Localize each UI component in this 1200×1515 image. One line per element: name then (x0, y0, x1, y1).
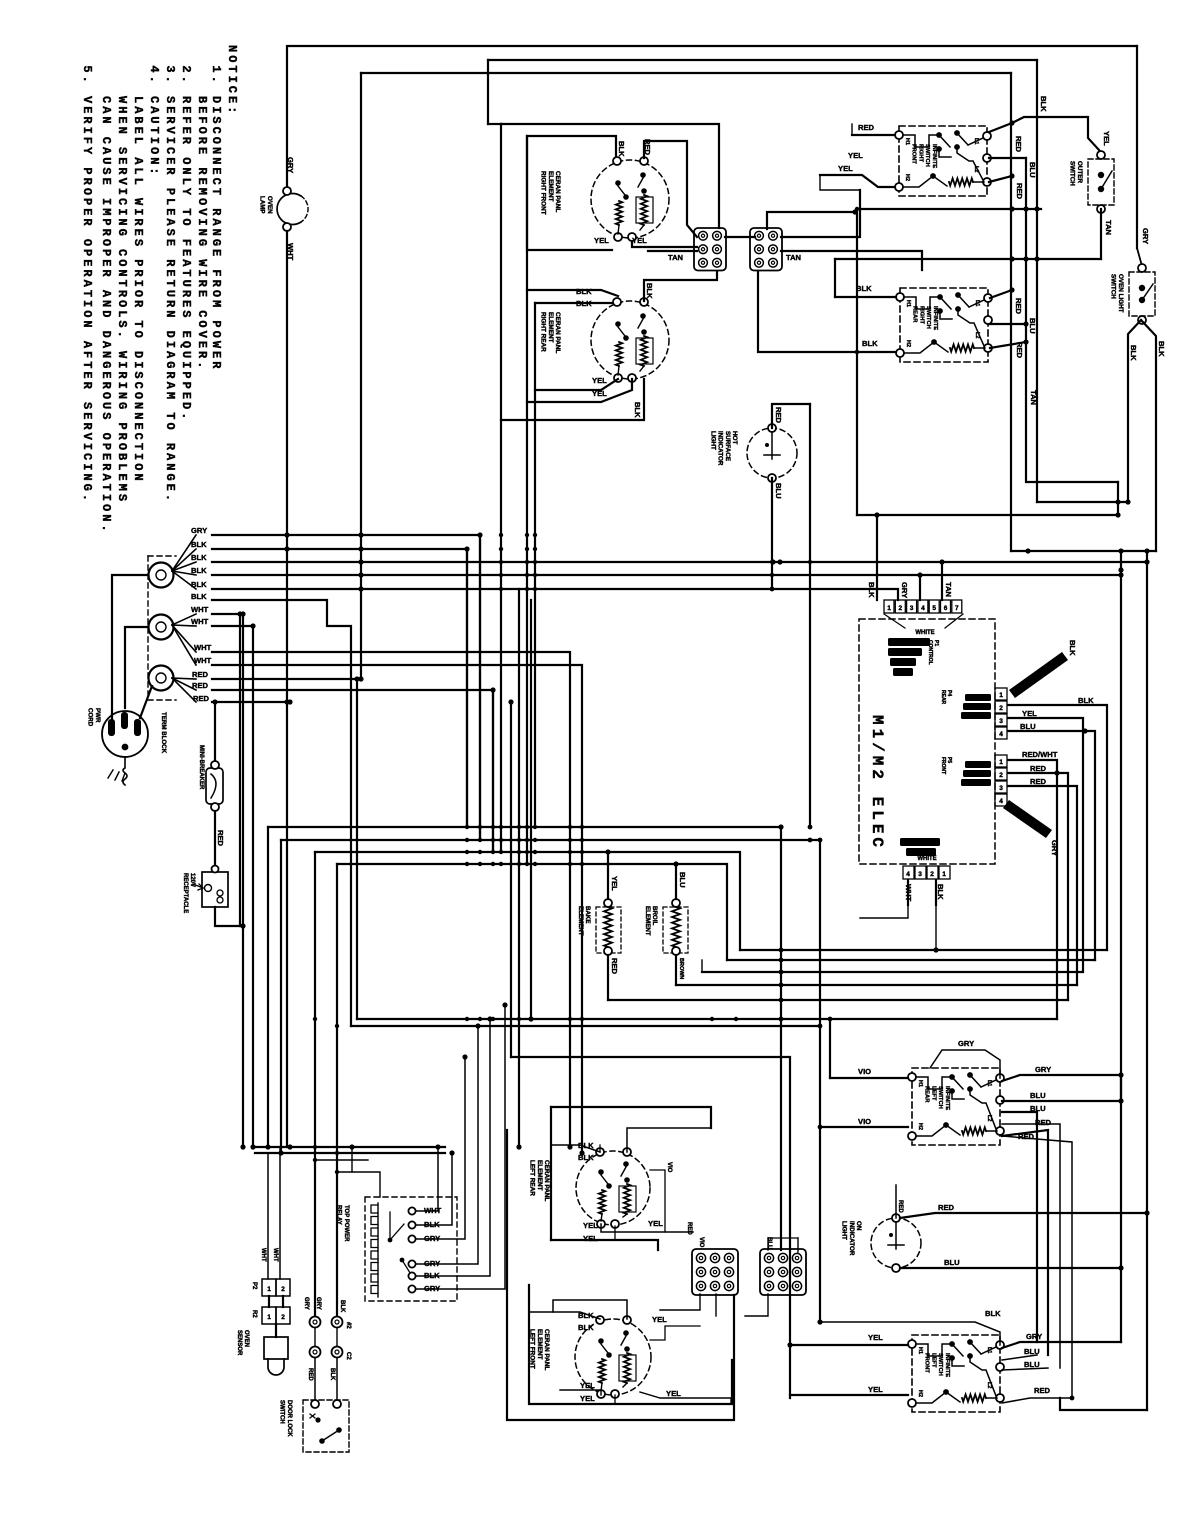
svg-text:RIGHT: RIGHT (918, 306, 924, 324)
svg-text:INDICATOR: INDICATOR (848, 1221, 855, 1256)
wire BLK y589 long to M1/M2 pin (212, 589, 898, 600)
box around right cooktop elements outer (501, 124, 719, 228)
svg-text:BLK: BLK (633, 402, 642, 418)
wire cord to lug3 (140, 686, 152, 718)
svg-text:BLK: BLK (339, 1300, 345, 1313)
svg-text:L2: L2 (973, 166, 979, 172)
wire VIO drop from y1019 (829, 1019, 831, 1078)
wire elem RF red terminal loop (644, 141, 697, 237)
svg-text:BLU: BLU (1028, 318, 1037, 334)
wire harness funnel (1128, 320, 1141, 502)
wire BLK into inf RR H1 (835, 296, 896, 298)
bottom strip blobs (900, 838, 940, 846)
svg-text:#2: #2 (345, 1322, 351, 1329)
wire YEL into LF H2 (790, 1394, 908, 1396)
wire bus3 drop at x=1011 (1010, 73, 1012, 259)
svg-text:BLK: BLK (617, 141, 626, 157)
wire conn1-conn2 link (725, 236, 755, 238)
svg-text:FRONT: FRONT (940, 757, 946, 774)
wire x531 down (530, 600, 532, 1019)
svg-text:BLK: BLK (867, 582, 876, 598)
wire elem LR bottoms to connector (601, 1224, 693, 1232)
wire R2 to sensor (275, 1324, 277, 1337)
svg-text:GRY: GRY (958, 1039, 974, 1048)
svg-text:4. CAUTION:: 4. CAUTION: (147, 65, 161, 177)
svg-text:OVEN: OVEN (243, 1330, 249, 1347)
connector P2 (262, 1279, 276, 1296)
bundle A left drops (267, 827, 269, 1147)
svg-text:OUTER: OUTER (1076, 161, 1083, 183)
wire elem RR top loop (527, 290, 618, 296)
svg-text:SENSOR: SENSOR (236, 1330, 242, 1356)
wire B1 RED/WHT out (1008, 760, 1057, 1019)
svg-text:3: 3 (910, 605, 914, 612)
wire x480 down (479, 535, 481, 840)
svg-text:SURFACE: SURFACE (724, 431, 731, 461)
svg-text:FRONT: FRONT (924, 1353, 930, 1373)
oven lamp (277, 194, 301, 225)
strip B blobs (965, 761, 991, 768)
svg-text:BLK: BLK (936, 884, 945, 900)
wire x1026 drop from L2 (1026, 158, 1118, 482)
svg-text:SWITCH: SWITCH (937, 1086, 943, 1109)
M1/M2 internal text blobs top (888, 638, 930, 646)
wire y209 link (857, 208, 1041, 210)
svg-text:DOOR LOCK: DOOR LOCK (286, 1400, 292, 1437)
strip funnel lines (884, 614, 905, 628)
svg-text:H2: H2 (917, 1123, 923, 1130)
svg-text:BLK: BLK (191, 553, 207, 562)
on indicator light (871, 1218, 921, 1268)
svg-text:YEL: YEL (594, 236, 609, 245)
svg-text:BLK: BLK (985, 1309, 1001, 1318)
svg-text:4: 4 (921, 605, 925, 612)
wire x519 down (518, 589, 520, 1147)
wire y259 link (835, 258, 1101, 260)
wire y515 from M1 area (857, 514, 1118, 516)
svg-text:R2: R2 (251, 1310, 257, 1318)
svg-text:RED: RED (1030, 777, 1047, 786)
svg-text:RED: RED (1015, 342, 1024, 359)
svg-text:BEFORE REMOVING WIRE COVER.: BEFORE REMOVING WIRE COVER. (195, 96, 209, 371)
wire YEL into inf RF H2 (820, 175, 895, 187)
strip A arrow black (1009, 652, 1068, 698)
svg-text:GRY: GRY (303, 1297, 309, 1310)
svg-text:BLK: BLK (1078, 696, 1094, 705)
svg-text:1: 1 (887, 605, 891, 612)
relay out wires to risers (416, 1147, 438, 1211)
svg-text:1. DISCONNECT RANGE FROM POWER: 1. DISCONNECT RANGE FROM POWER (209, 65, 223, 371)
wire x820 drop (819, 1127, 821, 1322)
wire WHT y652 down x570 (212, 652, 570, 1147)
wire cord to lug1 (112, 575, 148, 722)
svg-text:120V: 120V (189, 873, 195, 887)
svg-text:MINI-BREAKER: MINI-BREAKER (198, 745, 204, 790)
wire B2 RED out (1008, 773, 1068, 1000)
svg-text:CERAN PANL: CERAN PANL (543, 1160, 550, 1202)
wire M1 riser x920 (919, 575, 921, 600)
svg-text:INFINITE: INFINITE (932, 306, 938, 330)
svg-text:2: 2 (898, 605, 902, 612)
svg-text:SWITCH: SWITCH (1110, 274, 1117, 299)
wire VIO into H1 (830, 1077, 908, 1079)
svg-text:BLK: BLK (191, 580, 207, 589)
svg-text:BLU: BLU (678, 872, 687, 888)
svg-text:BLK: BLK (191, 566, 207, 575)
top power relay dashed box (365, 1197, 457, 1301)
wire bus2 drop at x=1037 (1036, 60, 1038, 259)
svg-text:YEL: YEL (1022, 709, 1037, 718)
wire breaker drop (214, 703, 216, 764)
svg-text:YEL: YEL (1102, 131, 1111, 146)
door lock switch (303, 1400, 349, 1452)
wire y556/568 dots (770, 559, 775, 564)
wire x467 down (466, 549, 468, 827)
wire oven lamp top to top bus (287, 46, 1137, 191)
bundle A line1 y827 (268, 826, 781, 828)
svg-text:BLK: BLK (191, 540, 207, 549)
svg-text:M1/M2 ELEC: M1/M2 ELEC (868, 715, 886, 851)
svg-text:H1: H1 (917, 1080, 923, 1087)
wire oven lamp bottom (WHT) (286, 231, 288, 1147)
svg-text:H1: H1 (917, 1347, 923, 1354)
svg-text:INFINITE: INFINITE (944, 1353, 950, 1377)
svg-text:H1: H1 (905, 300, 911, 307)
infinite switch left rear (912, 1068, 1000, 1145)
wire element RF inner loop (527, 136, 616, 250)
svg-text:BLU: BLU (1024, 1360, 1040, 1369)
120V receptacle (202, 872, 228, 907)
strip B arrow black (1003, 800, 1052, 838)
svg-text:BLK: BLK (1157, 341, 1166, 357)
broil box stub (701, 960, 703, 972)
junction dots fan region (284, 532, 289, 537)
wire broil top up (675, 864, 677, 899)
svg-text:L1: L1 (986, 1080, 992, 1086)
wire on-light top stub (895, 1185, 897, 1218)
wires lug1 fan (GRY/BLK) (172, 535, 196, 571)
svg-text:L2: L2 (986, 1115, 992, 1121)
terminal block dashed outline (148, 556, 176, 700)
svg-text:ELEMENT: ELEMENT (644, 906, 651, 936)
svg-text:TAN: TAN (786, 253, 801, 262)
svg-text:FRONT: FRONT (911, 144, 917, 164)
relay top feeds (352, 1147, 380, 1197)
svg-text:SWITCH: SWITCH (937, 1353, 943, 1376)
svg-text:1: 1 (942, 871, 946, 878)
wire WHT y626 down x253 (212, 626, 253, 1147)
svg-text:H2: H2 (917, 1390, 923, 1397)
svg-text:CONTROL: CONTROL (927, 640, 933, 665)
broil element dashed box (663, 907, 688, 953)
svg-text:BLK: BLK (862, 339, 878, 348)
M1/M2 ELEC dashed box (859, 619, 995, 864)
wire x857 from conn2 top down to y515 (856, 212, 858, 515)
power cord plug (102, 711, 148, 757)
svg-text:WHITE: WHITE (917, 856, 936, 862)
svg-text:LEFT FRONT: LEFT FRONT (529, 1329, 536, 1369)
relay internals (388, 1238, 393, 1243)
svg-text:GRY: GRY (286, 157, 295, 173)
wire LF L1 out GRY (1002, 1342, 1121, 1348)
bundle B junction dots on x781 (779, 948, 784, 953)
wire B3 RED out (1008, 786, 1077, 985)
svg-text:2. REFER ONLY TO FEATURES EQUI: 2. REFER ONLY TO FEATURES EQUIPPED. (179, 65, 193, 422)
svg-text:YEL: YEL (648, 1219, 663, 1228)
svg-text:ELEMENT: ELEMENT (536, 1160, 543, 1191)
svg-text:WHT: WHT (194, 656, 212, 665)
svg-text:RED: RED (1034, 1386, 1051, 1395)
left edge boxes right elements (500, 124, 502, 852)
wire RED y690 to x493 (212, 690, 493, 852)
wire x781 vertical down to connector (780, 827, 782, 1250)
svg-text:ELEMENT: ELEMENT (536, 1329, 543, 1360)
wire inf RR L mid out (990, 323, 1026, 325)
svg-text:BLK: BLK (576, 287, 592, 296)
svg-text:RED: RED (774, 407, 783, 424)
M1/M2 bottom connector strip pins (903, 866, 914, 879)
svg-text:YEL: YEL (592, 376, 607, 385)
wire BLK top into LF switch (820, 1322, 1000, 1345)
bundle A line4 y864 wraps to bundle B line2 (337, 864, 727, 960)
wire y502 merge (1037, 501, 1128, 503)
wire x1037 lower segment (1036, 259, 1038, 502)
wire LF L2 out RED (1002, 1398, 1072, 1403)
svg-text:L2: L2 (986, 1382, 992, 1388)
svg-text:BLK: BLK (578, 1323, 594, 1332)
svg-text:RED: RED (307, 1368, 313, 1381)
svg-text:VIO: VIO (666, 1162, 672, 1173)
wire bus3 vertical x361 (360, 73, 362, 679)
wire elem LR right terminal down (650, 1170, 665, 1232)
svg-text:RED: RED (1035, 1118, 1052, 1127)
svg-text:YEL: YEL (652, 1315, 667, 1324)
wire bottom wrap to right trunk (1060, 1398, 1147, 1410)
svg-text:LIGHT: LIGHT (841, 1221, 848, 1240)
svg-text:RIGHT REAR: RIGHT REAR (540, 312, 547, 352)
svg-text:BLK: BLK (856, 284, 872, 293)
svg-text:BLU: BLU (1030, 1091, 1046, 1100)
wire x1011 drop to y551 (1010, 259, 1012, 551)
terminal block lug 3 (149, 666, 174, 691)
wire BLK y575 long to trunk A (212, 574, 1121, 576)
svg-text:2: 2 (281, 1314, 285, 1321)
wire receptacle to x243 (215, 907, 243, 926)
svg-text:INDICATOR: INDICATOR (717, 431, 724, 466)
svg-text:CERAN PANL: CERAN PANL (554, 171, 561, 213)
wire top bus 3 (361, 72, 1011, 74)
svg-text:3: 3 (918, 871, 922, 878)
wire pair y1147/y1153 (255, 1146, 445, 1148)
ceran element right rear (591, 301, 669, 379)
bake element (596, 907, 621, 953)
svg-text:2: 2 (930, 871, 934, 878)
svg-text:RED: RED (610, 958, 619, 975)
svg-text:YEL: YEL (583, 1234, 598, 1243)
svg-text:PWR: PWR (94, 708, 101, 723)
svg-text:2: 2 (999, 705, 1003, 712)
svg-text:5. VERIFY PROPER OPERATION AFT: 5. VERIFY PROPER OPERATION AFTER SERVICI… (80, 65, 94, 504)
svg-text:CERAN PANL: CERAN PANL (543, 1329, 550, 1371)
svg-text:LEFT: LEFT (930, 1353, 936, 1368)
svg-text:CORD: CORD (87, 708, 94, 727)
ceran element left front (575, 1319, 651, 1395)
wire right trunk B x1147 (1146, 551, 1148, 1213)
wire elem LF right loop (650, 1326, 700, 1340)
wire elem RR bottoms (535, 379, 618, 390)
svg-text:NOTICE:: NOTICE: (225, 45, 239, 116)
svg-text:BLU: BLU (1030, 1104, 1046, 1113)
svg-text:SWITCH: SWITCH (279, 1400, 285, 1424)
svg-text:BLK: BLK (1039, 96, 1048, 112)
wire P2 risers (267, 1153, 269, 1279)
wire A2 BLK out (1008, 705, 1107, 950)
svg-text:SWITCH: SWITCH (1069, 161, 1076, 186)
wire right trunk A x1121 (1120, 551, 1122, 1101)
wires grommet pair link (314, 1328, 316, 1346)
svg-text:WHITE: WHITE (915, 630, 934, 636)
svg-text:OVEN: OVEN (266, 196, 273, 214)
wire bus2 left drop x488 (487, 60, 489, 124)
svg-text:ELEMENT: ELEMENT (547, 312, 554, 343)
wire broil bottom down (675, 955, 677, 985)
svg-text:YEL: YEL (632, 236, 647, 245)
wire y1019 long (357, 1018, 1057, 1020)
wire P2-R2 link (268, 1296, 270, 1307)
svg-text:1: 1 (267, 1314, 271, 1321)
svg-text:VIO: VIO (858, 1117, 871, 1126)
svg-text:3. SERVICER PLEASE RETURN DIAG: 3. SERVICER PLEASE RETURN DIAGRAM TO RAN… (163, 65, 177, 504)
svg-text:RED: RED (192, 681, 209, 690)
svg-text:REAR: REAR (940, 690, 946, 705)
svg-text:CAN CAUSE IMPROPER AND DANGERO: CAN CAUSE IMPROPER AND DANGEROUS OPERATI… (99, 96, 113, 535)
wires conn right verticals up (767, 1238, 769, 1250)
terminal block lug 1 (149, 563, 174, 588)
svg-text:BLU: BLU (1028, 162, 1037, 178)
svg-text:GRY: GRY (315, 1297, 321, 1310)
wire vertical x243 down (242, 614, 244, 1147)
svg-text:5: 5 (932, 605, 936, 612)
M1/M2 right connector strip B pins 1-4 (995, 755, 1007, 767)
infinite switch left front (912, 1335, 1000, 1412)
svg-text:ELEMENT: ELEMENT (577, 906, 584, 936)
wire BLK y549 to x467 (212, 549, 467, 827)
connector 3x3 left (692, 1249, 738, 1295)
outer switch (1088, 159, 1114, 205)
wire LR L1 out GRY (1002, 1075, 1121, 1081)
wire WHT y614 to receptacle junction (212, 614, 240, 926)
wire BLK y562 long to right side (212, 561, 1147, 563)
wire A3 YEL out (1008, 718, 1083, 970)
wires grommets down to door lock (314, 1358, 316, 1400)
svg-text:WHEN SERVICING CONTROLS. WIRIN: WHEN SERVICING CONTROLS. WIRING PROBLEMS (115, 96, 129, 504)
wire GRY y535 to x480 (212, 535, 480, 840)
wire x357 vertical (356, 679, 358, 1019)
svg-text:4: 4 (999, 731, 1003, 738)
wire bake top up (607, 852, 609, 899)
box left elements outer (507, 1130, 734, 1420)
svg-text:TOP POWER: TOP POWER (343, 1205, 349, 1242)
svg-text:CERAN PANL: CERAN PANL (554, 312, 561, 354)
svg-text:WHT: WHT (272, 1248, 278, 1262)
hot surface indicator light (747, 428, 797, 478)
wire conn2 bottom-left down then right (758, 271, 857, 352)
svg-text:RED/WHT: RED/WHT (1022, 750, 1058, 759)
power cord strain tail (123, 757, 127, 785)
svg-text:YEL: YEL (868, 1333, 883, 1342)
svg-text:YEL: YEL (666, 1389, 681, 1398)
ceran element right front (591, 160, 669, 238)
M1/M2 top connector strip P1 pins 1-7 (884, 600, 894, 613)
svg-text:RED: RED (1030, 764, 1047, 773)
dots on y1019 (465, 1017, 469, 1021)
wire BLK into inf RR H2 from TAN conn (857, 351, 896, 353)
wire inf RR L1 out (990, 290, 1012, 298)
wire inf RF L1 out to outer switch (989, 117, 1099, 150)
svg-text:RIGHT: RIGHT (917, 144, 923, 162)
wire elem RF bottom to TAN connector (632, 242, 697, 247)
wire LR extra drop (1002, 1124, 1060, 1368)
svg-text:BLK: BLK (576, 299, 592, 308)
svg-text:4: 4 (906, 871, 910, 878)
svg-text:2: 2 (281, 1286, 285, 1293)
wire LR out BLU2 (1002, 1112, 1037, 1342)
wire y1057 long (511, 1057, 790, 1398)
svg-text:BLK: BLK (1129, 345, 1138, 361)
svg-text:BLK: BLK (191, 592, 207, 601)
wire grommet pair 1 (310, 1317, 321, 1328)
wire A4 BLU out (1008, 731, 1095, 960)
mini breaker (206, 768, 223, 804)
svg-text:GRY: GRY (191, 526, 207, 535)
svg-text:RED: RED (686, 1222, 692, 1235)
svg-text:INFINITE: INFINITE (944, 1086, 950, 1110)
wire RED y702 to mini breaker junction (212, 701, 287, 703)
svg-text:1: 1 (267, 1286, 271, 1293)
svg-text:RED: RED (1014, 136, 1023, 153)
svg-text:L1: L1 (973, 138, 979, 144)
TAN connector block 2 (750, 228, 782, 271)
svg-text:4: 4 (999, 798, 1003, 805)
svg-text:RED: RED (1015, 183, 1024, 200)
wire BLK y600 jog (212, 600, 351, 1026)
svg-text:HOT: HOT (731, 431, 738, 444)
wire top bus 2 (488, 59, 1037, 61)
svg-text:L1: L1 (986, 1347, 992, 1353)
wire RED into inf RF H1 (852, 134, 895, 136)
wire x511 vertical (510, 702, 512, 1057)
svg-text:ELEMENT: ELEMENT (547, 171, 554, 202)
svg-text:BLK: BLK (1068, 640, 1077, 656)
svg-text:RECEPTACLE: RECEPTACLE (182, 873, 188, 913)
svg-text:BAKE: BAKE (584, 906, 591, 924)
infinite switch right front (899, 126, 987, 196)
svg-text:LEFT REAR: LEFT REAR (529, 1160, 536, 1196)
svg-text:YEL: YEL (838, 164, 853, 173)
svg-text:WHT: WHT (191, 605, 209, 614)
svg-text:REAR: REAR (912, 306, 918, 323)
svg-text:INFINITE: INFINITE (931, 144, 937, 168)
strip A blobs (965, 694, 991, 701)
wire bottom strip stubs (907, 880, 909, 905)
wire x493 down (492, 690, 494, 852)
wire elem LR tops (551, 1145, 600, 1152)
svg-text:RED: RED (1018, 1132, 1035, 1141)
svg-text:VIO: VIO (858, 1067, 871, 1076)
wire conn2 feeds right (781, 190, 860, 237)
TAN connector block 1 (694, 228, 726, 271)
wire WHT y665 down x582 (212, 665, 582, 1153)
